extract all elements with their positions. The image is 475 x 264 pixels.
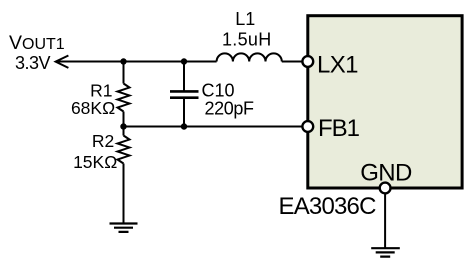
resistor R2 — [118, 136, 130, 164]
junction dot at C10 bottom node — [181, 123, 187, 129]
svg-text:L1: L1 — [235, 9, 255, 29]
pin FB1 — [302, 121, 313, 132]
svg-text:68KΩ: 68KΩ — [71, 98, 115, 118]
svg-text:1.5uH: 1.5uH — [222, 30, 272, 50]
wire node to R2 top — [123, 127, 125, 136]
resistor R1 — [118, 84, 130, 112]
svg-text:C10: C10 — [202, 80, 235, 100]
wire C10 bottom lead — [183, 98, 185, 127]
svg-text:EA3036C: EA3036C — [279, 193, 377, 220]
junction dot at C10 top node — [181, 58, 187, 64]
wire GND pin to ground — [384, 194, 386, 248]
arrowhead on VOUT1 wire — [56, 56, 69, 68]
pin GND — [380, 183, 391, 194]
inductor L1 — [217, 53, 282, 61]
ground symbol left — [110, 224, 138, 232]
wire R1 bottom to FB node — [123, 112, 125, 127]
pin LX1 — [302, 56, 313, 67]
capacitor C10 plates — [170, 91, 199, 97]
IC U1 EA3036C body — [308, 16, 462, 188]
junction dot at R1/R2 divider node — [120, 123, 126, 129]
svg-text:VOUT1: VOUT1 — [9, 32, 65, 54]
svg-text:R2: R2 — [92, 131, 114, 151]
wire FB1 horizontal — [124, 126, 303, 128]
svg-text:15KΩ: 15KΩ — [73, 152, 117, 172]
svg-text:3.3V: 3.3V — [15, 53, 51, 73]
junction dot at VOUT/R1 node — [120, 58, 126, 64]
wire node to R1 top — [123, 62, 125, 84]
wire C10 top lead — [183, 62, 185, 92]
svg-text:GND: GND — [360, 159, 412, 186]
wire inductor to pin LX1 — [282, 61, 302, 63]
svg-text:FB1: FB1 — [318, 115, 360, 142]
wire top (arrow to inductor) — [56, 61, 217, 63]
ground symbol right — [371, 248, 400, 256]
svg-text:LX1: LX1 — [317, 52, 358, 79]
wire R2 bottom to ground — [123, 164, 125, 224]
svg-text:220pF: 220pF — [205, 99, 254, 119]
